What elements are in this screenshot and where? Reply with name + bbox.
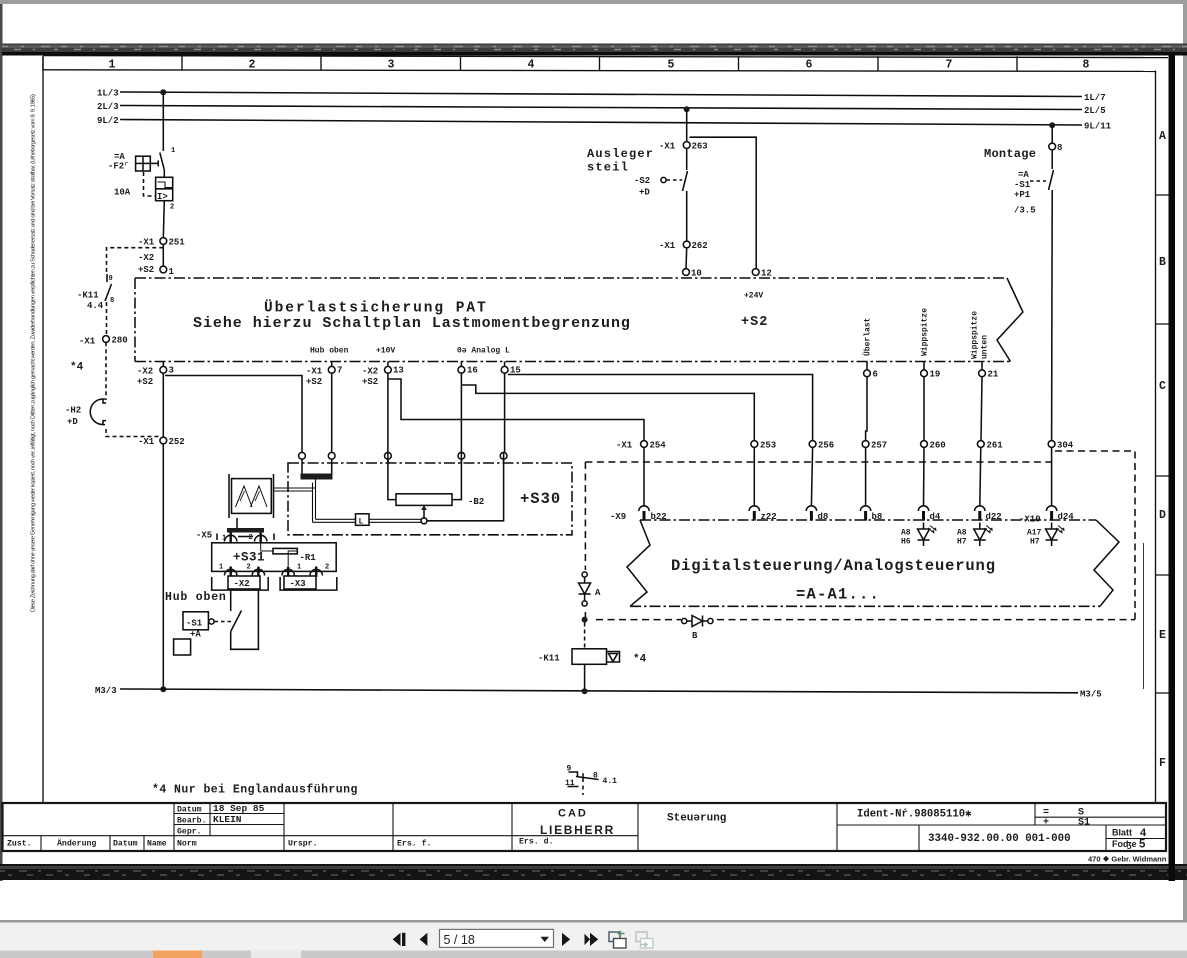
wire terminal 3 down	[162, 373, 164, 437]
potentiometer B2	[396, 494, 484, 507]
svg-text:+10V: +10V	[376, 347, 395, 356]
svg-text:-X9: -X9	[610, 512, 626, 522]
svg-text:d22: d22	[986, 512, 1002, 522]
svg-text:A: A	[1159, 130, 1166, 143]
wire 261 to socket d22	[980, 447, 981, 506]
svg-text:12: 12	[761, 269, 772, 279]
S31 bottom socket 2a	[247, 564, 265, 578]
svg-text:1: 1	[169, 267, 175, 277]
svg-text:Wippspitze: Wippspitze	[971, 311, 980, 359]
wire montage switch to 304	[1051, 190, 1054, 440]
svg-text:251: 251	[169, 238, 186, 248]
svg-text:304: 304	[1057, 441, 1074, 451]
PAGE-FRAME	[31, 56, 1169, 803]
svg-text:-X1: -X1	[659, 241, 676, 251]
wire terminal 19 to 260	[923, 377, 925, 441]
switch S1 loop wire	[231, 590, 259, 649]
svg-text:8: 8	[1083, 59, 1090, 72]
svg-text:262: 262	[692, 241, 708, 251]
socket d22	[975, 506, 1002, 522]
svg-text:254: 254	[650, 441, 667, 451]
icon next-view (disabled)	[636, 932, 653, 948]
LED H6	[901, 523, 937, 547]
svg-text:-K11: -K11	[538, 654, 560, 664]
svg-text:*4 Nur bei Englandausführung: *4 Nur bei Englandausführung	[152, 784, 358, 797]
right black strip	[1169, 53, 1176, 881]
svg-text:19: 19	[930, 370, 941, 380]
scan fold line right margin	[1143, 543, 1145, 689]
svg-text:-X10: -X10	[1019, 515, 1041, 525]
right gray strip	[1183, 0, 1187, 921]
wire transformer secondary down	[236, 518, 238, 528]
svg-text:H7: H7	[957, 538, 967, 547]
wire 263 to switch S2	[686, 148, 688, 170]
X5 connection bar	[227, 528, 264, 533]
svg-text:B: B	[692, 631, 698, 641]
wire terminal 15 down	[504, 373, 506, 452]
svg-text:Foʤe: Foʤe	[1112, 839, 1136, 849]
PAT bottom terminal 19	[921, 362, 941, 380]
svg-text:Siehe hierzu Schaltplan Lastmo: Siehe hierzu Schaltplan Lastmomentbegren…	[193, 315, 631, 332]
dashed wire box to K11	[584, 623, 586, 649]
taskbar light gap	[251, 951, 301, 958]
node junction on 9L	[1049, 122, 1055, 128]
svg-text:4.1: 4.1	[603, 777, 618, 786]
S1 dashed link	[215, 621, 234, 623]
wire K11 to M3	[584, 664, 586, 691]
indicator lamp H2	[90, 399, 106, 425]
junction dot dashed corner	[582, 617, 588, 623]
scan bottom dark band	[0, 864, 1187, 880]
resistor R1	[273, 548, 316, 563]
wire 254 to socket b22	[643, 447, 645, 506]
terminal 253	[751, 441, 776, 451]
svg-text:Wippspitze: Wippspitze	[921, 308, 930, 356]
PAT box torn right edge	[997, 278, 1023, 362]
svg-text:F: F	[1159, 757, 1166, 770]
titleblock outer border	[3, 803, 1167, 851]
connector bracket -X2	[212, 576, 269, 590]
terminal -X1 263	[659, 142, 708, 152]
wire terminal 7 down	[331, 373, 333, 452]
svg-text:-B2: -B2	[468, 497, 484, 507]
wire 257 to socket b8	[865, 447, 867, 506]
terminal 304	[1048, 441, 1074, 451]
svg-text:Blatt: Blatt	[1112, 828, 1132, 838]
svg-text:5: 5	[1139, 839, 1146, 851]
svg-text:253: 253	[760, 441, 776, 451]
svg-text:Gepr.: Gepr.	[177, 828, 202, 837]
svg-text:470 ❖ Gebr. Widmann: 470 ❖ Gebr. Widmann	[1088, 855, 1167, 864]
TITLEBLOCK	[3, 803, 1167, 864]
svg-text:21: 21	[988, 370, 999, 380]
svg-text:4: 4	[1140, 827, 1147, 839]
breaker F2 contact lever	[160, 147, 175, 170]
S1 actuator circle	[209, 619, 214, 624]
wire 1L to breaker F2	[162, 92, 164, 151]
montage switch dashed link	[1030, 180, 1046, 182]
svg-text:1L/3: 1L/3	[97, 89, 119, 99]
transformer T1	[229, 474, 274, 518]
svg-text:H6: H6	[901, 538, 911, 547]
svg-text:-R1: -R1	[300, 553, 317, 563]
svg-text:4: 4	[528, 59, 535, 72]
scan top dark band	[2, 44, 1187, 54]
connector -X5 sockets	[217, 533, 274, 543]
svg-text:CAD: CAD	[558, 808, 588, 820]
S2 dashed link	[667, 179, 683, 181]
connector bracket -X3	[280, 576, 337, 590]
viewer separator line	[0, 920, 1187, 923]
svg-text:8: 8	[110, 297, 114, 305]
svg-text:-X1: -X1	[306, 367, 323, 377]
column ruler ticks	[43, 56, 1017, 70]
svg-text:7: 7	[946, 59, 953, 72]
wiper arrow to B2	[421, 505, 427, 518]
torn box right zigzag	[1094, 520, 1119, 606]
switch S1 lever	[231, 611, 242, 632]
node junction on 1L	[160, 89, 166, 95]
S1 box	[183, 612, 208, 630]
svg-text:Hub oben: Hub oben	[165, 591, 227, 604]
S30 entry circle d	[458, 452, 465, 463]
S30 entry circle a	[299, 452, 306, 463]
relay coil K11	[538, 649, 607, 665]
taskbar orange segment	[153, 951, 202, 958]
S31 bottom socket 1a	[219, 564, 237, 578]
terminal 10 on PAT box	[683, 269, 702, 279]
svg-text:-X1: -X1	[138, 437, 155, 447]
svg-text:Ident-Nŕ.98085110✱: Ident-Nŕ.98085110✱	[857, 809, 972, 821]
svg-text:9: 9	[109, 275, 113, 283]
svg-text:1: 1	[219, 564, 223, 572]
bottom taskbar sliver	[0, 951, 1187, 958]
svg-text:-X2: -X2	[137, 367, 153, 377]
wire 251 to terminal 1	[162, 244, 164, 266]
terminal 257	[862, 441, 887, 451]
PAT bottom terminal 13	[362, 362, 404, 388]
svg-text:Steuərung: Steuərung	[667, 813, 726, 825]
svg-text:-X2: -X2	[234, 579, 250, 589]
svg-text:M3/5: M3/5	[1080, 690, 1102, 700]
titleblock horizontal dividers	[3, 814, 1167, 839]
svg-text:-X2: -X2	[362, 367, 378, 377]
S30 entry circle e	[500, 452, 507, 463]
svg-text:unten: unten	[981, 335, 990, 359]
svg-text:Ers. d.: Ers. d.	[519, 837, 553, 847]
svg-text:-S1: -S1	[1014, 180, 1031, 190]
svg-text:Zust.: Zust.	[7, 840, 32, 849]
svg-text:Urspr.: Urspr.	[288, 840, 317, 849]
S30 entry circle b	[328, 452, 335, 463]
svg-text:Hub oben: Hub oben	[310, 347, 349, 356]
left dark page edge	[0, 4, 3, 881]
svg-text:5: 5	[668, 59, 675, 72]
svg-text:LIEBHERR: LIEBHERR	[540, 823, 615, 837]
wire 13 into B2 left	[388, 452, 396, 499]
svg-text:-K11: -K11	[77, 291, 99, 301]
svg-text:8: 8	[593, 772, 598, 781]
wire 262 to 10	[685, 248, 688, 269]
terminal 256	[809, 441, 834, 451]
svg-text:+P1: +P1	[1014, 190, 1031, 200]
wire terminal 13 down	[387, 373, 389, 452]
wire 9L to terminal 8	[1051, 125, 1053, 143]
svg-text:E: E	[1159, 629, 1166, 642]
LED H7	[957, 523, 993, 547]
svg-text:+A: +A	[190, 630, 201, 640]
svg-text:Diese Zeichnung darf ohne unse: Diese Zeichnung darf ohne unsere Genehmi…	[31, 94, 37, 612]
wire 256 to socket d8	[811, 447, 812, 506]
svg-text:Digitalsteuerung/Analogsteueru: Digitalsteuerung/Analogsteuerung	[671, 557, 996, 575]
svg-text:H7: H7	[1030, 538, 1040, 547]
svg-text:d8: d8	[818, 512, 829, 522]
node junction on 2L	[684, 106, 690, 112]
terminal -X1 262	[659, 241, 708, 251]
S31 bottom socket 2b	[310, 564, 329, 578]
M3 junction dot left	[160, 686, 166, 692]
svg-text:+S2: +S2	[741, 315, 768, 330]
svg-text:-X2: -X2	[138, 253, 154, 263]
svg-text:-H2: -H2	[65, 406, 81, 416]
svg-text:10: 10	[691, 269, 702, 279]
svg-text:-X1: -X1	[659, 142, 676, 152]
svg-text:2: 2	[247, 564, 251, 572]
wire 252 to M3	[162, 444, 164, 690]
wire 2L to 263	[686, 109, 688, 142]
bus 9L wire	[120, 120, 1082, 126]
wire 253 to socket z22	[753, 447, 755, 506]
svg-text:2: 2	[170, 204, 174, 212]
svg-text:-X1: -X1	[79, 337, 96, 347]
svg-text:9: 9	[567, 765, 572, 774]
svg-text:256: 256	[818, 441, 834, 451]
bus 2L wire	[120, 106, 1082, 110]
svg-text:+D: +D	[67, 417, 78, 427]
svg-text:/3.5: /3.5	[1014, 206, 1036, 216]
S31 box	[212, 543, 337, 572]
bus 1L wire	[120, 92, 1082, 97]
svg-text:b22: b22	[651, 512, 667, 522]
svg-text:2: 2	[325, 564, 329, 572]
svg-text:280: 280	[112, 336, 128, 346]
PAT bottom terminal 15	[501, 362, 521, 376]
nav prev-page button	[420, 933, 428, 946]
S1 auxiliary square	[174, 639, 191, 655]
svg-text:1: 1	[171, 147, 175, 155]
svg-text:7: 7	[337, 366, 342, 376]
svg-text:+S30: +S30	[520, 490, 561, 508]
svg-text:-X1: -X1	[138, 238, 155, 248]
wiper node circle	[421, 518, 427, 524]
socket b22	[639, 506, 667, 522]
svg-text:3: 3	[388, 59, 395, 72]
wire S30 entries to junction bar	[302, 463, 332, 474]
nav next-page button	[562, 933, 570, 946]
svg-text:*4: *4	[633, 654, 647, 666]
uberlastsicherung PAT box	[135, 278, 1011, 362]
terminal -X2 +S2 1	[138, 253, 175, 277]
svg-text:=A: =A	[1018, 170, 1029, 180]
wire terminal 16 branch to 253	[461, 385, 754, 440]
column ruler bottom line	[43, 70, 1156, 72]
thermal-magnetic trip unit	[156, 170, 175, 238]
svg-text:9L/2: 9L/2	[97, 116, 119, 126]
column ruler top line	[43, 56, 1168, 58]
svg-text:-S1: -S1	[186, 619, 203, 629]
wire 304 to socket d24	[1051, 447, 1053, 506]
svg-text:A8: A8	[957, 529, 967, 538]
svg-text:2: 2	[249, 59, 256, 72]
contact K11 4.4	[105, 274, 114, 305]
terminal -X1 252	[138, 437, 185, 447]
svg-text:3340-932.00.00 001-000: 3340-932.00.00 001-000	[928, 833, 1071, 845]
wire R1 to X3-1	[288, 551, 297, 566]
svg-text:1: 1	[109, 59, 116, 72]
svg-text:+S2: +S2	[137, 377, 153, 387]
wire X5-2 to R1	[261, 543, 273, 551]
svg-text:=A: =A	[114, 152, 125, 162]
svg-text:13: 13	[393, 366, 404, 376]
outer dashed box A-A1	[585, 451, 1135, 620]
svg-text:9L/11: 9L/11	[1084, 122, 1112, 132]
wire S2 to 262	[686, 191, 688, 241]
svg-text:0ə Analog L: 0ə Analog L	[457, 347, 510, 356]
row letters	[1159, 130, 1166, 770]
dashed branch to K11 contact	[107, 248, 164, 273]
dashed wire lamp to 252	[106, 429, 159, 437]
svg-text:steil: steil	[587, 161, 629, 175]
socket z22	[749, 506, 777, 522]
svg-text:M3/3: M3/3	[95, 686, 117, 696]
wire terminal 21 to 261	[981, 377, 982, 441]
svg-text:+D: +D	[639, 188, 650, 198]
svg-text:A8: A8	[901, 529, 911, 538]
svg-text:b8: b8	[872, 512, 883, 522]
S2 actuator circle	[661, 177, 666, 182]
svg-text:B: B	[1159, 256, 1166, 269]
wire 15 to wiper line	[427, 452, 504, 521]
wire terminal 3 branch to S30	[165, 376, 302, 453]
svg-text:=A-A1...: =A-A1...	[796, 586, 880, 604]
svg-text:2: 2	[249, 534, 253, 542]
diode A	[579, 572, 601, 606]
bus M3 wire	[120, 689, 1078, 693]
svg-text:1: 1	[222, 535, 226, 543]
svg-text:4.4: 4.4	[87, 301, 104, 311]
wire 260 to socket d4	[923, 447, 926, 506]
svg-text:Datum: Datum	[177, 806, 202, 815]
switch S2 lever	[683, 171, 688, 191]
S30 entry circle c	[385, 452, 392, 463]
svg-text:5 / 18: 5 / 18	[444, 933, 475, 947]
svg-text:260: 260	[930, 441, 946, 451]
wire X2-1 to switch S1	[230, 590, 232, 611]
PAT bottom terminal 21	[979, 362, 999, 380]
nav last-page button	[585, 933, 599, 946]
svg-text:Ausleger: Ausleger	[587, 147, 654, 161]
svg-text:-S2: -S2	[634, 176, 650, 186]
svg-text:+24V: +24V	[744, 292, 763, 301]
svg-text:10A: 10A	[114, 188, 131, 198]
PAT bottom terminal 3	[137, 362, 174, 388]
svg-text:8: 8	[1057, 143, 1062, 153]
svg-text:Bearb.: Bearb.	[177, 816, 206, 826]
dashed link fuse to trip unit	[144, 172, 156, 196]
svg-text:KLEIN: KLEIN	[213, 814, 242, 825]
wire terminal 15 branch to 256	[508, 375, 813, 441]
titleblock vertical dividers	[41, 803, 1106, 851]
svg-text:I>: I>	[157, 192, 168, 202]
terminal 12 on PAT box	[752, 269, 772, 279]
svg-text:257: 257	[871, 441, 887, 451]
svg-text:D: D	[1159, 509, 1166, 522]
svg-text:252: 252	[169, 437, 185, 447]
svg-text:A: A	[595, 588, 601, 598]
viewer bar background	[0, 923, 1187, 951]
K11 contact cross reference	[565, 765, 617, 796]
S30 box	[288, 463, 572, 535]
svg-text:3: 3	[169, 366, 174, 376]
terminal -X1 251	[138, 238, 185, 248]
top gray strip	[0, 0, 1187, 4]
dashed wire 280 to lamp	[105, 342, 107, 400]
nav page spinbox	[440, 929, 554, 947]
svg-text:Überlast: Überlast	[864, 317, 873, 356]
thick wire L-box to wiper node	[369, 519, 421, 522]
svg-text:+S2: +S2	[306, 377, 322, 387]
svg-text:z22: z22	[761, 512, 777, 522]
switch S1 montage lever	[1049, 150, 1054, 190]
svg-text:1L/7: 1L/7	[1084, 93, 1106, 103]
svg-text:+S2: +S2	[138, 265, 154, 275]
column numbers	[109, 59, 1090, 72]
svg-text:Änderung: Änderung	[57, 838, 96, 849]
dashed wire K11 to 280	[106, 302, 108, 336]
terminal -X1 280	[79, 336, 128, 347]
fuse symbol F2	[136, 156, 159, 171]
svg-text:L: L	[359, 518, 364, 527]
row letter ticks	[1156, 195, 1169, 693]
terminal -X1 254	[616, 441, 666, 451]
diode B	[682, 616, 713, 642]
svg-text:+: +	[1043, 818, 1049, 829]
wire branch 263 to 12	[690, 137, 757, 268]
svg-text:16: 16	[467, 366, 478, 376]
frame right edge	[1155, 71, 1157, 804]
nav first-page button	[393, 933, 406, 946]
svg-text:*4: *4	[70, 362, 84, 374]
M3 junction dot right	[582, 688, 588, 694]
socket d24	[1046, 506, 1074, 522]
terminal 261	[977, 441, 1003, 451]
junction bar	[301, 474, 333, 480]
svg-text:S1: S1	[1078, 818, 1090, 829]
socket d8	[806, 506, 828, 522]
terminal 260	[921, 441, 946, 451]
svg-text:C: C	[1159, 380, 1166, 393]
wire 16 into B2 right	[452, 452, 461, 499]
K11 freewheel diode	[607, 652, 647, 666]
svg-text:Datum: Datum	[113, 840, 138, 849]
PAT bottom terminal 6	[864, 362, 878, 380]
socket d4	[918, 506, 941, 522]
L box	[356, 514, 370, 527]
svg-text:-X3: -X3	[290, 579, 306, 589]
icon previous-view	[609, 931, 626, 948]
svg-text:1: 1	[297, 564, 301, 572]
terminal 8	[1049, 143, 1063, 153]
